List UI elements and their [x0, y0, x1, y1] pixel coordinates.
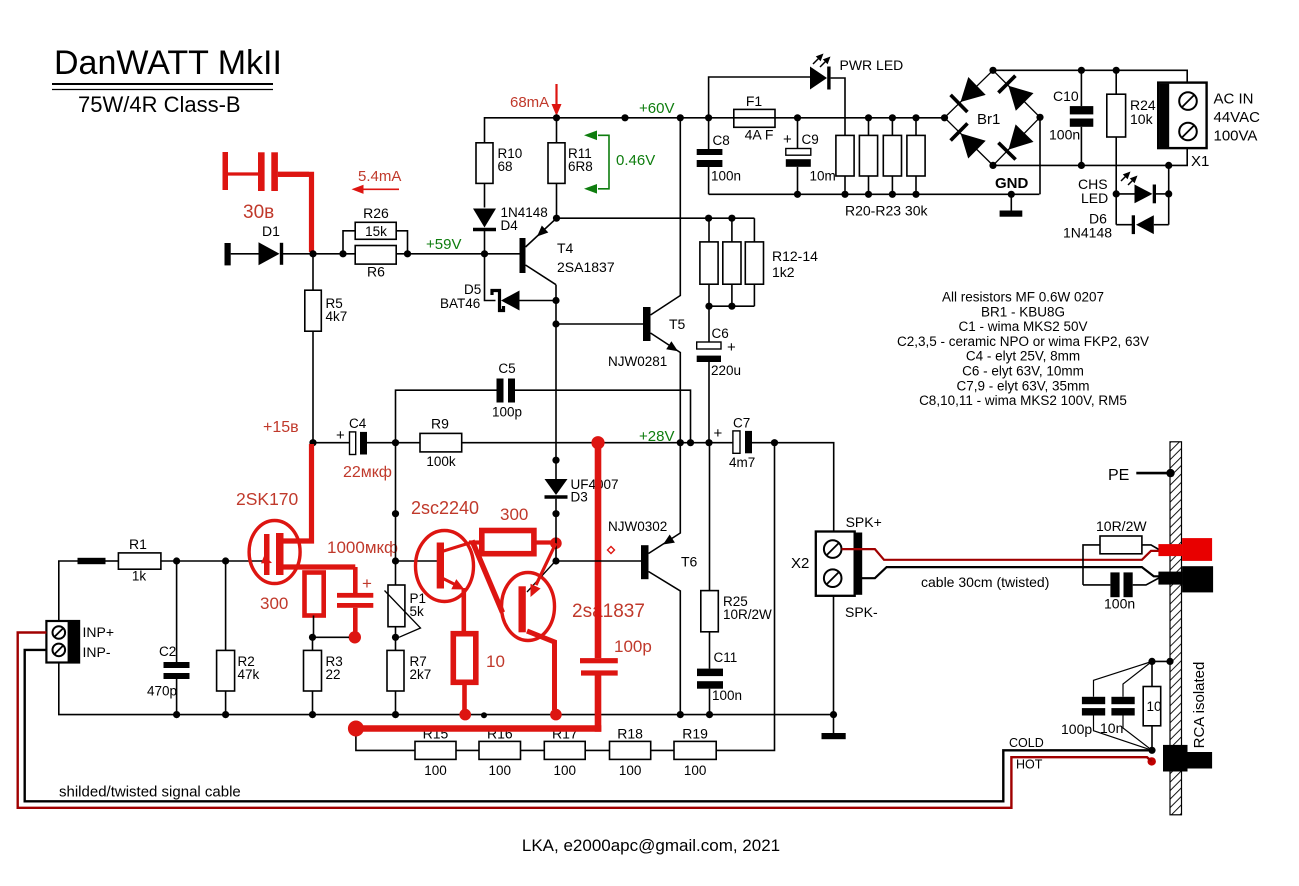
- note line 3: [958, 319, 1087, 334]
- label 1N4148: [501, 205, 548, 220]
- transistor T6 base bar: [641, 545, 649, 579]
- svg-text:2SA1837: 2SA1837: [557, 259, 615, 275]
- node gnd R3: [309, 711, 316, 718]
- resistor R12-14 element at 731.9: [723, 242, 741, 284]
- node P1/R7: [392, 634, 399, 641]
- svg-text:RCA isolated: RCA isolated: [1191, 662, 1208, 749]
- resistor R1: [118, 553, 160, 569]
- svg-text:2sc2240: 2sc2240: [411, 498, 479, 518]
- svg-text:100n: 100n: [712, 688, 742, 703]
- wire speaker cable black: [862, 567, 1159, 578]
- value 100k: [426, 454, 456, 469]
- wire bead to R1: [106, 560, 119, 562]
- svg-text:75W/4R Class-B: 75W/4R Class-B: [78, 92, 241, 117]
- wire D6 right: [1154, 224, 1169, 226]
- capacitor C8 plates: [697, 149, 723, 167]
- wire R12-14 bottom bus: [709, 305, 754, 307]
- value 100p rca: [1061, 721, 1092, 737]
- svg-text:10R/2W: 10R/2W: [723, 607, 772, 622]
- label 44VAC: [1214, 109, 1261, 126]
- wire T4 emitter: [526, 218, 557, 247]
- svg-text:+: +: [362, 574, 372, 593]
- capacitor 100n zobel plates: [1110, 572, 1132, 597]
- arrow CHS ray2: [1128, 176, 1138, 186]
- wire 2sa1837 collector: [527, 631, 555, 710]
- wire R5 to +15v node: [312, 331, 314, 443]
- wire R23_bottom: [915, 176, 917, 194]
- node C10 bottom: [1078, 162, 1085, 169]
- connector RCA body: [1163, 745, 1212, 772]
- wire +15v to C4: [313, 442, 350, 444]
- svg-text:SPK+: SPK+: [846, 514, 882, 530]
- label P1: [410, 591, 427, 606]
- potentiometer P1 box: [388, 585, 405, 627]
- value 100 R19: [684, 763, 707, 778]
- wire D3 cathode down: [555, 499, 557, 561]
- node gnd C11: [706, 711, 713, 718]
- svg-text:100k: 100k: [426, 454, 456, 469]
- node T4 collector / D5: [552, 297, 559, 304]
- svg-text:C6: C6: [712, 326, 729, 341]
- svg-text:100: 100: [619, 763, 642, 778]
- terminal SPK+ screw: [824, 540, 842, 558]
- label PWR LED: [840, 57, 904, 73]
- label GND: [995, 175, 1029, 192]
- value 5k: [410, 604, 425, 619]
- svg-text:COLD: COLD: [1009, 736, 1044, 750]
- label R25: [723, 594, 748, 609]
- wire T4 collector: [526, 265, 557, 285]
- node 10 gnd (red): [459, 709, 471, 721]
- label D5: [464, 282, 481, 297]
- svg-text:GND: GND: [995, 175, 1029, 192]
- wire X2 SPK- to gnd: [833, 596, 835, 715]
- svg-text:+59V: +59V: [426, 236, 461, 253]
- node below rail: [552, 457, 559, 464]
- terminal X3 input block: [46, 621, 79, 663]
- diode Br1 bottom-left: [951, 123, 986, 158]
- wire T6 base: [556, 560, 641, 562]
- svg-text:PWR LED: PWR LED: [840, 57, 904, 73]
- value 100n C11: [712, 688, 742, 703]
- value 300 collector: [500, 505, 528, 524]
- wire minus rail: [709, 193, 1040, 195]
- svg-text:+: +: [783, 131, 792, 148]
- node rail C9: [794, 114, 801, 121]
- value 100 R17: [554, 763, 577, 778]
- arrow 2sc2240 emitter: [451, 579, 464, 589]
- node C6 top b: [728, 303, 735, 310]
- svg-text:AC IN: AC IN: [1214, 91, 1254, 108]
- svg-text:100VA: 100VA: [1214, 128, 1258, 145]
- svg-text:R1: R1: [129, 536, 147, 552]
- measure 0.46V bracket: [598, 135, 609, 189]
- svg-text:INP-: INP-: [83, 644, 111, 660]
- wire T4 base node to D5: [485, 254, 496, 301]
- resistor 10 rca: [1143, 687, 1161, 726]
- node R23 bottom rail: [912, 191, 919, 198]
- label R11: [568, 146, 592, 161]
- value 10m: [810, 169, 836, 184]
- svg-text:X2: X2: [791, 555, 809, 572]
- svg-text:100: 100: [489, 763, 512, 778]
- wire zobel R to post: [1142, 545, 1159, 550]
- terminal bar left of D1: [225, 243, 231, 265]
- wire GND stub: [1010, 194, 1012, 210]
- label 2SA1837: [557, 259, 615, 275]
- transistor 2sc2240 circle: [416, 531, 474, 602]
- svg-text:C5: C5: [498, 361, 515, 376]
- label 0.46V: [616, 152, 655, 169]
- wire 2sc2240 emitter: [442, 578, 459, 587]
- svg-text:All resistors MF 0.6W 0207: All resistors MF 0.6W 0207: [942, 290, 1104, 305]
- node T5 base junction: [552, 320, 559, 327]
- label R19: [682, 726, 708, 742]
- capacitor 30v plate left: [258, 152, 265, 191]
- svg-text:100: 100: [554, 763, 577, 778]
- transistor 2SK170 channel bar: [276, 533, 284, 575]
- capacitor C10 plates: [1070, 106, 1094, 127]
- node rca top a: [1148, 658, 1155, 665]
- wire R12-14 bottom at 709: [708, 284, 710, 306]
- diode D5 schottky bar: [492, 291, 504, 311]
- wire output rail right of C7: [752, 443, 834, 532]
- diode D5 triangle: [501, 291, 520, 311]
- resistor R22 (R20-R23): [883, 135, 901, 176]
- value 22: [326, 667, 341, 682]
- wire R5 top: [312, 254, 314, 290]
- resistor R12-14 element at 709: [700, 242, 718, 284]
- note line 2: [981, 304, 1065, 319]
- wire 1000uF bottom stem: [353, 608, 358, 633]
- svg-text:100: 100: [424, 763, 447, 778]
- label R3: [326, 654, 343, 669]
- wire R11 top: [556, 118, 558, 143]
- led PWR LED triangle: [810, 67, 827, 90]
- node R24 top: [1113, 67, 1120, 74]
- capacitor 10n rca plates: [1111, 697, 1134, 716]
- node C2 top: [173, 557, 180, 564]
- value 1k2: [772, 264, 795, 280]
- wire 10 to ground: [462, 682, 467, 710]
- svg-text:LKA, e2000apc@gmail.com, 2021: LKA, e2000apc@gmail.com, 2021: [522, 836, 780, 855]
- node +15v: [309, 439, 316, 446]
- post red binding: [1158, 538, 1212, 561]
- svg-text:100n: 100n: [1049, 127, 1080, 143]
- bridge Br1 diamond: [945, 70, 1041, 165]
- label C10: [1053, 88, 1079, 104]
- svg-text:1N4148: 1N4148: [1063, 225, 1112, 241]
- node Br1 top: [989, 67, 996, 74]
- capacitor C6 minus plate: [697, 356, 721, 362]
- terminal bar left of 30v cap: [223, 152, 229, 190]
- node unused mid: [392, 510, 399, 517]
- capacitor C7 minus plate: [745, 431, 752, 453]
- svg-text:300: 300: [260, 594, 288, 613]
- wire CHS right vertical: [1168, 165, 1170, 224]
- wire zobel C left: [1083, 584, 1110, 586]
- label D6: [1089, 211, 1107, 227]
- title DanWATT MkII: [54, 44, 282, 82]
- wire R24 to CHS LED: [1115, 137, 1117, 225]
- note line 8: [919, 393, 1127, 408]
- svg-text:4k7: 4k7: [326, 309, 348, 324]
- svg-text:4m7: 4m7: [729, 455, 755, 470]
- wire T6 emitter: [649, 443, 681, 554]
- svg-text:cable 30cm (twisted): cable 30cm (twisted): [921, 574, 1049, 590]
- value 300 source: [260, 594, 288, 613]
- wire LED branch: [709, 77, 810, 118]
- svg-text:220u: 220u: [711, 363, 741, 378]
- capacitor C7 plus plate: [733, 431, 740, 453]
- svg-text:44VAC: 44VAC: [1214, 109, 1261, 126]
- arrow 2SK170 gate: [261, 555, 272, 563]
- transistor 2SK170 gate bar: [264, 534, 270, 575]
- label R20-R23 30k: [845, 203, 928, 219]
- node gnd R2: [222, 711, 229, 718]
- diode D4: [473, 209, 496, 230]
- wire R2 bottom: [225, 691, 227, 715]
- wire C11 bottom: [709, 689, 711, 715]
- resistor R17: [544, 741, 585, 759]
- svg-text:10k: 10k: [1130, 111, 1154, 127]
- arrow 0.46V top: [584, 131, 597, 141]
- wire T6 collector: [649, 572, 681, 715]
- svg-text:R12-14: R12-14: [772, 248, 818, 264]
- wire ground rail bottom: [59, 663, 834, 715]
- wire R1 to gate: [161, 560, 265, 562]
- terminal X2 block: [816, 532, 862, 596]
- value 10: [486, 652, 505, 671]
- wire CHS led anode: [1116, 193, 1134, 195]
- label C11: [714, 650, 738, 665]
- value 220u: [711, 363, 741, 378]
- node D4 cathode / T4 base: [481, 250, 488, 257]
- label 1N4148 D6: [1063, 225, 1112, 241]
- resistor R6: [355, 246, 396, 265]
- node rail C8 branch: [705, 114, 712, 121]
- svg-text:100p: 100p: [492, 405, 522, 420]
- node feedback (red): [348, 721, 364, 737]
- label R26: [363, 205, 389, 221]
- svg-text:4A F: 4A F: [745, 127, 774, 143]
- wire C9 top: [797, 118, 799, 149]
- svg-text:C10: C10: [1053, 88, 1079, 104]
- note line 5: [966, 349, 1080, 364]
- node T6 base junction: [552, 557, 559, 564]
- diode D6 bar: [1132, 215, 1135, 234]
- wire C9 bottom: [797, 167, 799, 195]
- wire red node to R15: [356, 734, 415, 750]
- svg-text:10: 10: [1147, 699, 1162, 714]
- label C8: [713, 133, 730, 148]
- terminal X1 screw bottom: [1179, 123, 1197, 141]
- node output red: [591, 436, 604, 449]
- label +59V: [426, 236, 461, 253]
- node R5 top: [309, 250, 316, 257]
- svg-text:PE: PE: [1108, 467, 1129, 484]
- label 68mA: [510, 94, 549, 111]
- svg-text:BR1 - KBU8G: BR1 - KBU8G: [981, 304, 1065, 319]
- note line 4: [897, 334, 1149, 349]
- wire R11 bottom to emitter node: [556, 183, 558, 218]
- resistor R23 (R20-R23): [907, 135, 925, 176]
- svg-text:1000мкф: 1000мкф: [327, 538, 398, 557]
- svg-text:R18: R18: [617, 726, 643, 742]
- note line 6: [962, 364, 1084, 379]
- label R18: [617, 726, 643, 742]
- node rail Br1 plus: [941, 114, 948, 121]
- wire 100p rca top: [1094, 661, 1153, 696]
- svg-text:10: 10: [486, 652, 505, 671]
- svg-text:C8: C8: [713, 133, 730, 148]
- node rail C5 right: [687, 439, 694, 446]
- label shilded cable: [59, 784, 241, 801]
- wire signal cold (black): [25, 650, 1152, 801]
- wire speaker cable red: [842, 549, 1160, 560]
- svg-text:Br1: Br1: [977, 111, 1000, 128]
- value 10n rca: [1100, 720, 1123, 736]
- wire R7 bottom: [395, 691, 397, 715]
- wire C8 top: [708, 118, 710, 149]
- label Br1: [977, 111, 1000, 128]
- title underline: [52, 84, 273, 90]
- value 1000мкф: [327, 538, 398, 557]
- svg-text:T5: T5: [669, 316, 686, 332]
- label NJW0302: [608, 519, 667, 534]
- node gnd X2: [830, 711, 837, 718]
- arrow T4 emitter (PNP): [537, 226, 548, 237]
- svg-text:C11: C11: [714, 650, 738, 665]
- wire R24 top lead: [1115, 70, 1117, 94]
- value 100n C10: [1049, 127, 1080, 143]
- label LED: [1081, 190, 1108, 206]
- svg-text:+15в: +15в: [263, 419, 299, 436]
- note line 1: [942, 290, 1104, 305]
- arrow T6 emitter (PNP): [663, 535, 675, 545]
- label 2SK170: [236, 489, 299, 509]
- svg-text:BAT46: BAT46: [440, 296, 480, 311]
- value 470p: [147, 684, 177, 699]
- wire LED cathode to R20: [831, 78, 845, 135]
- arrow 5.4mA head: [352, 185, 364, 194]
- value 15k: [365, 224, 387, 239]
- node R11/T4 emitter: [553, 215, 560, 222]
- diode Br1 bottom-right: [998, 124, 1033, 159]
- node bias R13: [728, 215, 735, 222]
- wire R20_bottom: [844, 176, 846, 194]
- wire R26 left bracket: [343, 231, 355, 254]
- svg-text:100p: 100p: [1061, 721, 1092, 737]
- wire C4 node down to P1: [395, 443, 397, 585]
- svg-text:2SK170: 2SK170: [236, 489, 299, 509]
- svg-text:R26: R26: [363, 205, 389, 221]
- svg-text:D5: D5: [464, 282, 481, 297]
- svg-text:5k: 5k: [410, 604, 425, 619]
- node rail unused: [621, 114, 628, 121]
- label cable 30cm: [921, 574, 1049, 590]
- wire T4 collector chain down: [555, 285, 557, 480]
- label SPK+: [846, 514, 882, 530]
- label C2: [159, 644, 176, 659]
- svg-text:D1: D1: [262, 223, 280, 239]
- value 68: [498, 159, 513, 174]
- wire emitter to 10 resistor: [461, 588, 466, 634]
- wire 2sc2240 collector: [442, 543, 471, 552]
- resistor 10R/2W zobel: [1100, 536, 1142, 554]
- wire 10n rca bottom: [1123, 716, 1152, 751]
- svg-text:SPK-: SPK-: [845, 604, 878, 620]
- node rca hot (red): [1148, 757, 1156, 765]
- svg-text:HOT: HOT: [1016, 758, 1043, 772]
- value 4k7: [326, 309, 348, 324]
- wire CHS led cathode: [1156, 193, 1169, 195]
- svg-text:+: +: [714, 425, 723, 442]
- wire 2SK170 source: [280, 564, 355, 569]
- wire C4 to R9: [367, 442, 420, 444]
- arrow T5 emitter (NPN): [666, 341, 678, 351]
- post black binding: [1158, 566, 1213, 592]
- svg-text:22: 22: [326, 667, 341, 682]
- label COLD: [1009, 736, 1044, 750]
- label R10: [498, 146, 523, 161]
- wire R12-14 top at 709: [708, 218, 710, 242]
- node D1/R5 junction: [339, 250, 346, 257]
- capacitor C4 minus plate: [360, 432, 367, 455]
- node rail T5 collector: [677, 114, 684, 121]
- node gnd T6: [677, 711, 684, 718]
- resistor 10 (red): [453, 634, 476, 683]
- wire C5 right: [515, 390, 691, 443]
- diode D3: [545, 479, 568, 497]
- wire R12-14 top at 731.9: [731, 218, 733, 242]
- label +28V: [639, 428, 674, 445]
- wire 300 right lead: [534, 540, 553, 544]
- ground bar GND: [1000, 211, 1023, 217]
- value 22мкф: [343, 464, 392, 481]
- wire zobel left: [1083, 545, 1100, 585]
- label C5: [498, 361, 515, 376]
- svg-text:47k: 47k: [238, 667, 260, 682]
- node D3 cathode: [552, 510, 559, 517]
- terminal X1 block: [1158, 83, 1206, 149]
- label R17: [552, 726, 578, 742]
- resistor R26: [355, 222, 396, 239]
- terminal SPK- screw: [824, 569, 842, 587]
- bus red feedback: [356, 725, 601, 732]
- label NJW0281: [608, 354, 667, 369]
- node CHS LED right: [1165, 190, 1172, 197]
- value 10R/2W: [723, 607, 772, 622]
- label C4 plus: [336, 427, 345, 444]
- transistor T4 base bar: [520, 238, 526, 273]
- arrow 2sa1837 emitter: [531, 584, 541, 597]
- value 100 R16: [489, 763, 512, 778]
- led CHS triangle: [1135, 185, 1153, 204]
- label UF4007: [571, 477, 619, 492]
- wire C2 bottom: [176, 679, 178, 715]
- resistor R7: [387, 650, 404, 691]
- label SPK-: [845, 604, 878, 620]
- svg-text:30в: 30в: [243, 202, 274, 223]
- wire 10 rca top: [1151, 661, 1153, 686]
- node 2sa1837 gnd (red): [550, 709, 562, 721]
- wire PE: [1136, 472, 1170, 475]
- capacitor C9 plus plate: [786, 149, 811, 156]
- node GND stub: [1008, 191, 1015, 198]
- node rail R22: [889, 114, 896, 121]
- wire R19 to output rail: [716, 443, 774, 751]
